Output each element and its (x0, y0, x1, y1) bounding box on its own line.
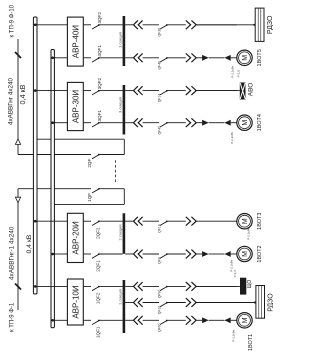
wire: АВР-30И input from bus 2 (54, 122, 67, 124)
wire: feeder drop 1ВОТ5 feeder (125, 57, 133, 59)
wire: АВР-30И output 3QF2 (83, 90, 91, 92)
wire: АВО feeder lower (167, 90, 186, 92)
wire: 1ВОТ3 feeder mid (143, 220, 159, 222)
svg-text:Р-2,2кВт: Р-2,2кВт (231, 65, 235, 77)
svg-text:Р-2,2кВт: Р-2,2кВт (231, 329, 235, 341)
node: АВР-30И on bus 2 (51, 121, 54, 124)
node: РДЗО feeder on panel bus (123, 301, 126, 304)
svg-text:QF6б: QF6б (158, 323, 162, 332)
svg-text:QF4б: QF4б (158, 126, 162, 135)
wire: 2QF leg upper (18, 154, 91, 156)
node: АВР-40И on bus 2 (51, 56, 54, 59)
wire: РДЗО feeder mid (143, 24, 159, 26)
connector chevrons (down) on 1ВОТ2 feeder (186, 250, 196, 259)
wire: 4QF2 to panel bus (99, 24, 123, 26)
wire: 4QF1 to panel bus (99, 57, 123, 59)
wire: 1ВОТ2 feeder mid (143, 253, 159, 255)
connector chevrons (down) on АВО feeder (186, 86, 196, 95)
wire: feeder drop 1ВОТ4 feeder (125, 122, 133, 124)
connector chevrons (down) on ЩО feeder (186, 282, 196, 291)
wire: 1ВОТ5 feeder mid (143, 57, 159, 59)
svg-text:0,4 кВ: 0,4 кВ (26, 234, 33, 253)
wire: 1ВОТ4 feeder to cable head (196, 122, 202, 124)
svg-text:4QF2: 4QF2 (97, 12, 102, 24)
ATS unit АВР-30И (67, 82, 83, 130)
svg-text:QF16: QF16 (158, 306, 162, 315)
svg-text:АВО: АВО (248, 83, 255, 97)
svg-text:1ВОТ4: 1ВОТ4 (257, 114, 263, 131)
svg-text:2QF2: 2QF2 (95, 227, 100, 239)
wire: АВР-10И output 1QF1 (83, 319, 91, 321)
breaker 1QF1 (92, 320, 99, 324)
wire: feeder1 horizontal (17, 39, 19, 155)
breaker 4QF1 (92, 58, 99, 62)
switch QF18 on 1ВОТ3 feeder (160, 221, 167, 225)
svg-text:3QF2: 3QF2 (97, 77, 102, 89)
svg-text:к ТП-9 Ф-1: к ТП-9 Ф-1 (10, 302, 16, 332)
svg-text:М: М (242, 251, 249, 257)
wire: to РДЗО (left) (196, 302, 256, 304)
wire: feeder drop 1ВОТ2 feeder (125, 253, 133, 255)
svg-text:М: М (242, 218, 249, 224)
draw-out contact chevrons (up) on 1ВОТ3 feeder (134, 217, 143, 226)
svg-text:АВР-10И: АВР-10И (71, 285, 80, 319)
svg-text:РДЗО: РДЗО (267, 15, 273, 34)
svg-text:1ВОТ1: 1ВОТ1 (248, 334, 254, 351)
wire: ЩО feeder to load (196, 285, 237, 287)
wire: 1ВОТ5 feeder lower (167, 57, 186, 59)
cable termination triangles on 1ВОТ4 feeder (202, 120, 209, 126)
svg-text:М: М (242, 317, 249, 323)
wire: up-leg to bus 1 (35, 138, 124, 140)
connector chevrons (down) on 1ВОТ1 feeder (186, 316, 196, 325)
wire: 1QF leg lower (99, 188, 124, 190)
connector chevrons (down) on 1ВОТ4 feeder (186, 118, 196, 127)
wire: 1ВОТ3 feeder lower (167, 220, 186, 222)
wire: to РДЗО (right) (196, 24, 255, 26)
node: АВР-10И on bus 2 (51, 319, 54, 322)
svg-text:QF9б: QF9б (158, 290, 162, 299)
cable mark (slash) on feeder 1 (15, 52, 21, 58)
wire: 1ВОТ1 feeder to cable head (196, 319, 202, 321)
wire: 2QF leg lower (99, 154, 124, 156)
wire: 2QF1 to panel bus (99, 253, 123, 255)
wire: АВР-20И output 2QF1 (83, 253, 91, 255)
wire: АВР-30И input from bus 1 (37, 90, 67, 92)
motor 1ВОТ1 (237, 313, 252, 328)
breaker 4QF2 (92, 25, 99, 29)
wire: 1ВОТ1 feeder mid (143, 319, 159, 321)
wire: up-leg to bus 2 (53, 203, 125, 205)
svg-text:Р-2,2кВт: Р-2,2кВт (230, 131, 234, 143)
draw-out contact chevrons (up) on 1ВОТ2 feeder (134, 250, 143, 259)
svg-text:АВР-30И: АВР-30И (71, 90, 80, 124)
draw-out contact chevrons (up) on 1ВОТ1 feeder (134, 316, 143, 325)
wire: ЩО feeder mid (143, 285, 159, 287)
svg-text:Р-2,2: Р-2,2 (233, 270, 237, 278)
ATS unit АВР-40И (67, 17, 83, 66)
wire: ЩО feeder lower (167, 285, 186, 287)
node: АВР-40И on bus 1 (34, 23, 37, 26)
switch QF14 on АВО feeder (160, 91, 167, 95)
wire: РДЗО feeder lower (167, 24, 186, 26)
svg-text:2 секция: 2 секция (117, 224, 122, 240)
draw-out contact chevrons (up) on АВО feeder (134, 86, 143, 95)
svg-text:QF14: QF14 (158, 94, 162, 103)
svg-text:0,4 кВ: 0,4 кВ (18, 84, 27, 104)
wire: АВР-40И input from bus 2 (54, 57, 67, 59)
svg-text:М: М (242, 120, 249, 126)
svg-text:QF18: QF18 (158, 224, 162, 233)
switch QF16 on РДЗО-left feeder (160, 303, 167, 307)
load РДЗО (left distribution board) (256, 286, 265, 319)
svg-text:1 секция: 1 секция (117, 32, 122, 48)
switch QF46 on 1ВОТ5 feeder (160, 58, 167, 62)
wire: 2QF2 to panel bus (99, 220, 123, 222)
wire: feeder drop ЩО feeder (125, 285, 133, 287)
svg-text:М: М (242, 55, 249, 61)
switch QF9б on ЩО feeder (160, 286, 167, 290)
panel busbar of АВР-10И (123, 280, 126, 333)
wire: РДЗО-left feeder lower (167, 302, 186, 304)
svg-text:4QF1: 4QF1 (97, 45, 102, 57)
svg-text:АВР-20И: АВР-20И (71, 221, 80, 255)
breaker 3QF1 (92, 123, 99, 127)
wire: feeder drop 1ВОТ3 feeder (125, 220, 133, 222)
node: АВР-20И on bus 2 (51, 253, 54, 256)
wire: 1ВОТ3 feeder to load (196, 220, 237, 222)
svg-text:1 секция: 1 секция (117, 289, 122, 305)
motor 1ВОТ2 (237, 246, 252, 261)
wire: АВР-20И input from bus 1 (37, 220, 67, 222)
motor 1ВОТ3 (237, 214, 252, 229)
wire: 3QF1 to panel bus (99, 122, 123, 124)
wire: 1ВОТ2 feeder to cable head (196, 253, 202, 255)
breaker 1QF (92, 189, 99, 193)
direction arrow (open triangle) on feeder 1 (15, 139, 20, 145)
draw-out contact chevrons (up) on 1ВОТ5 feeder (134, 53, 143, 62)
switch QF4б on 1ВОТ4 feeder (160, 123, 167, 127)
busbar section 1 (0,4 кВ upper bus) (33, 17, 37, 294)
wire: feeder drop РДЗО feeder (125, 24, 133, 26)
connector chevrons (down) on РДЗО feeder (186, 20, 196, 29)
wire: feeder drop РДЗО-left feeder (125, 302, 133, 304)
node: at РДЗО (253, 24, 255, 26)
load РДЗО (right distribution board) (255, 8, 264, 41)
node: feeder2 on bus 2 (52, 203, 55, 206)
wire: АВР-10И output 1QF2 (83, 285, 91, 287)
load ЩО (filled box) (240, 278, 246, 295)
wire: 1QF2 to panel bus (99, 285, 123, 287)
svg-text:Р-2,2кВт: Р-2,2кВт (229, 259, 233, 271)
svg-text:QF8: QF8 (158, 257, 162, 264)
wire: 1ВОТ4 feeder mid (143, 122, 159, 124)
svg-text:ЩО: ЩО (247, 280, 253, 289)
wire: 3QF2 to panel bus (99, 90, 123, 92)
cable termination triangles on 1ВОТ1 feeder (202, 317, 209, 323)
svg-text:4хАВВГнг 4х240: 4хАВВГнг 4х240 (8, 78, 15, 125)
wire: АВР-40И output 4QF1 (83, 57, 91, 59)
load АВО (crossed box) (240, 83, 246, 100)
wire: АВР-40И output 4QF2 (83, 24, 91, 26)
svg-text:2QF: 2QF (87, 159, 92, 168)
svg-text:1QF1: 1QF1 (95, 326, 100, 338)
draw-out contact chevrons (up) on ЩО feeder (134, 282, 143, 291)
wire: АВР-20И output 2QF2 (83, 220, 91, 222)
connector chevrons (down) on РДЗО-left feeder (186, 298, 196, 307)
wire: АВР-10И input from bus 2 (54, 319, 67, 321)
svg-text:QF46: QF46 (158, 61, 162, 70)
svg-text:3QF1: 3QF1 (97, 110, 102, 122)
wire: 1ВОТ5 feeder to cable head (196, 57, 202, 59)
svg-text:1ВОТ3: 1ВОТ3 (257, 213, 263, 230)
wire: АВР-10И input from bus 1 (37, 285, 67, 287)
node: АВР-10И on bus 1 (34, 285, 37, 288)
svg-text:РДЗО: РДЗО (267, 293, 273, 312)
ATS unit АВР-10И (67, 279, 83, 325)
wire: РДЗО-left feeder to load (196, 302, 237, 304)
svg-text:1ВОТ2: 1ВОТ2 (257, 245, 263, 262)
wire: 1ВОТ1 feeder lower (167, 319, 186, 321)
draw-out contact chevrons (up) on 1ВОТ4 feeder (134, 118, 143, 127)
motor 1ВОТ5 (237, 50, 252, 65)
switch QF36 on РДЗО feeder (160, 25, 167, 29)
svg-text:1QF: 1QF (87, 193, 92, 202)
svg-text:1QF2: 1QF2 (95, 292, 100, 304)
breaker 3QF2 (92, 91, 99, 95)
svg-text:Р-2,5: Р-2,5 (237, 70, 241, 78)
cable mark (slash) on feeder 2 (15, 284, 21, 290)
panel busbar of АВР-40И (123, 16, 126, 66)
wire: 1QF leg upper (18, 188, 91, 190)
switch QF8 on 1ВОТ2 feeder (160, 254, 167, 258)
node: feeder1 on bus 1 (34, 138, 37, 141)
wire: feeder drop 1ВОТ1 feeder (125, 319, 133, 321)
wire: РДЗО-left feeder mid (143, 302, 159, 304)
wire: РДЗО feeder to load (196, 24, 237, 26)
wire: АВО feeder mid (143, 90, 159, 92)
node: at left РДЗО (254, 301, 256, 303)
draw-out contact chevrons (up) on РДЗО feeder (134, 20, 143, 29)
switch QF6б on 1ВОТ1 feeder (160, 320, 167, 324)
svg-text:АВР-40И: АВР-40И (71, 25, 80, 59)
busbar section 2 (0,4 кВ lower bus) (51, 50, 54, 328)
wire: АВО feeder to load (196, 90, 237, 92)
svg-text:2QF1: 2QF1 (95, 260, 100, 272)
connector chevrons (down) on 1ВОТ3 feeder (186, 217, 196, 226)
wire: АВР-20И input from bus 2 (54, 253, 67, 255)
wire: 1QF jog (123, 189, 125, 205)
svg-text:4хАВВГнг-1 4х240: 4хАВВГнг-1 4х240 (9, 226, 16, 280)
panel busbar of АВР-20И (123, 213, 126, 254)
interlock dashed link between 1QF and 2QF (115, 160, 117, 182)
wire: 2QF jog (123, 139, 125, 154)
wire: 1ВОТ2 feeder lower (167, 253, 186, 255)
node: АВР-20И on bus 1 (34, 220, 37, 223)
wire: feeder drop АВО feeder (125, 90, 133, 92)
svg-text:Р-2,2кВт: Р-2,2кВт (246, 227, 250, 239)
wire: АВР-40И input from bus 1 (37, 24, 67, 26)
svg-text:к ТП-9 Ф-10: к ТП-9 Ф-10 (10, 4, 16, 37)
wire: АВР-30И output 3QF1 (83, 122, 91, 124)
cable termination triangles on 1ВОТ2 feeder (202, 251, 209, 257)
connector chevrons (down) on 1ВОТ5 feeder (186, 53, 196, 62)
node: АВР-30И on bus 1 (34, 89, 37, 92)
wire: 1QF1 to panel bus (99, 319, 123, 321)
wire: 1ВОТ4 feeder lower (167, 122, 186, 124)
breaker 2QF (92, 155, 99, 159)
motor 1ВОТ4 (237, 115, 252, 130)
panel busbar of АВР-30И (123, 85, 126, 135)
breaker 1QF2 (92, 286, 99, 290)
ATS unit АВР-20И (67, 213, 83, 262)
cable termination triangles on 1ВОТ5 feeder (202, 55, 209, 61)
breaker 2QF1 (92, 254, 99, 258)
breaker 2QF2 (92, 221, 99, 225)
draw-out contact chevrons (up) on РДЗО-left feeder (134, 298, 143, 307)
svg-text:1ВОТ5: 1ВОТ5 (257, 49, 263, 66)
wire: feeder2 horizontal (17, 189, 19, 310)
svg-text:3 секция: 3 секция (117, 97, 122, 113)
direction arrow (open triangle) on feeder 2 (15, 197, 20, 203)
svg-text:QF36: QF36 (158, 28, 162, 37)
